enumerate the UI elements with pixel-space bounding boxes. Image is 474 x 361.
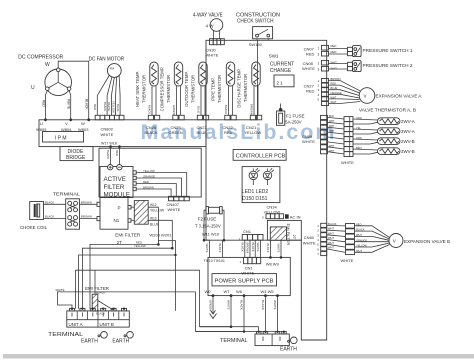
svg-text:F2 FUSE: F2 FUSE <box>198 216 217 221</box>
compressor wire U (red) <box>41 91 47 120</box>
svg-text:BROWN: BROWN <box>81 200 92 204</box>
svg-text:T 3.15A-250V: T 3.15A-250V <box>195 224 221 229</box>
EMI filter (small, line) <box>85 270 114 315</box>
svg-text:EMI FILTER: EMI FILTER <box>115 233 141 238</box>
wire run mid <box>76 270 259 331</box>
power supply bottom labels <box>205 289 275 294</box>
svg-text:BLUE: BLUE <box>116 104 120 111</box>
svg-text:WHITE: WHITE <box>302 139 315 144</box>
svg-text:ORANGE: ORANGE <box>356 238 368 242</box>
IPM PCB outline <box>39 120 206 147</box>
P N1 box <box>100 198 131 230</box>
svg-text:THERMISTOR: THERMISTOR <box>243 74 248 102</box>
wires W8 W9 to power supply <box>266 240 283 266</box>
choke coil <box>20 202 48 230</box>
svg-text:4 W: 4 W <box>206 24 215 29</box>
svg-text:WHT: WHT <box>329 130 335 133</box>
svg-text:WHITE: WHITE <box>101 132 114 137</box>
diode bridge <box>60 147 93 161</box>
svg-text:BLACK: BLACK <box>328 222 337 226</box>
svg-text:YELLOW: YELLOW <box>143 169 155 173</box>
svg-text:W11 W10: W11 W10 <box>202 231 220 236</box>
bottom gray band <box>3 354 474 359</box>
svg-text:BRIDGE: BRIDGE <box>66 155 86 161</box>
wire W5 white <box>273 296 277 332</box>
compressor temp thermistor <box>160 62 183 115</box>
svg-text:WHT: WHT <box>331 61 338 65</box>
junction dots U V W <box>44 118 47 121</box>
svg-text:5A-250V: 5A-250V <box>285 120 302 125</box>
DC compressor <box>18 54 71 95</box>
svg-text:BLACK: BLACK <box>145 130 158 135</box>
svg-text:BCK: BCK <box>329 115 334 118</box>
LED indicator box <box>242 167 280 203</box>
wire run third <box>79 254 177 309</box>
svg-text:BLACK: BLACK <box>218 244 222 253</box>
svg-text:YELLOW: YELLOW <box>134 244 146 248</box>
choke to terminal wires <box>44 200 66 218</box>
svg-text:W6: W6 <box>236 289 243 294</box>
svg-text:ORANGE: ORANGE <box>143 174 155 178</box>
svg-text:2T: 2T <box>292 235 297 240</box>
terminal to active filter wires <box>80 200 101 220</box>
wires to expansion valve A <box>329 77 361 104</box>
svg-text:WHITE: WHITE <box>303 240 316 245</box>
expansion valve A <box>359 88 422 104</box>
thermistor 3WV-A <box>353 128 415 135</box>
svg-text:W804: W804 <box>61 127 72 132</box>
wire WT white <box>200 296 232 327</box>
svg-text:3: 3 <box>318 53 320 57</box>
svg-text:EXPANSION VALVE A: EXPANSION VALVE A <box>376 93 423 98</box>
svg-text:AC IN: AC IN <box>290 214 301 219</box>
svg-text:WHT: WHT <box>356 233 362 237</box>
switch SW1 current change <box>269 53 295 86</box>
svg-text:3: 3 <box>318 68 320 72</box>
svg-text:BLUE: BLUE <box>197 106 201 113</box>
wires CN1 to power supply <box>241 240 261 257</box>
svg-text:BROWN: BROWN <box>143 185 154 189</box>
svg-text:W200 W201: W200 W201 <box>150 233 173 238</box>
svg-text:CHOKE COIL: CHOKE COIL <box>20 225 48 230</box>
connector CN27 <box>304 79 329 106</box>
svg-text:RED: RED <box>356 222 362 226</box>
svg-text:RED: RED <box>331 44 337 48</box>
svg-text:EMI FILTER: EMI FILTER <box>286 224 291 246</box>
svg-text:W12: W12 <box>150 203 157 207</box>
svg-text:WHT: WHT <box>328 231 334 235</box>
svg-text:BLACK: BLACK <box>96 312 105 316</box>
svg-text:WHT: WHT <box>328 241 334 245</box>
svg-text:YELLOW: YELLOW <box>150 209 165 213</box>
svg-text:BLACK: BLACK <box>251 243 255 252</box>
svg-text:BLACK: BLACK <box>240 300 244 310</box>
svg-text:COMPRESSOR TEMP.: COMPRESSOR TEMP. <box>160 67 165 112</box>
expansion valve B connector (external) <box>341 224 355 263</box>
valve thermistor connector (external) <box>341 116 362 165</box>
svg-text:F1 FUSE: F1 FUSE <box>286 114 305 119</box>
IPM terminal labels <box>36 121 89 132</box>
svg-text:V: V <box>65 121 68 126</box>
svg-text:T9/10 T9/101: T9/10 T9/101 <box>204 259 225 263</box>
wire W4 black <box>261 296 265 332</box>
svg-text:WHITE: WHITE <box>241 271 254 276</box>
svg-text:CN60: CN60 <box>304 235 315 240</box>
svg-text:P: P <box>118 205 121 210</box>
connector CN07 <box>304 44 337 57</box>
svg-text:FILTER: FILTER <box>104 184 125 191</box>
fuse F1 <box>277 104 305 126</box>
svg-text:1: 1 <box>318 62 320 66</box>
svg-text:RED: RED <box>115 150 119 156</box>
svg-text:W0: W0 <box>205 289 212 294</box>
svg-text:WHITE: WHITE <box>168 207 181 212</box>
IPM label <box>43 132 84 143</box>
svg-text:WHT: WHT <box>328 227 334 231</box>
svg-text:PIPE TEMP.: PIPE TEMP. <box>211 77 216 100</box>
wire W12 yellow <box>148 203 165 244</box>
discharge temp thermistor <box>237 62 261 115</box>
connector CN23 <box>197 115 209 135</box>
svg-text:WT: WT <box>224 289 231 294</box>
fuse F2 <box>195 207 222 229</box>
svg-text:VALVE THERMISTOR A, B: VALVE THERMISTOR A, B <box>359 108 416 113</box>
svg-text:CONTROLLER PCB: CONTROLLER PCB <box>236 153 286 159</box>
svg-text:THERMISTOR: THERMISTOR <box>217 75 222 103</box>
EMI filter (controller PCB) <box>267 220 301 245</box>
svg-text:SW1: SW1 <box>269 53 279 58</box>
svg-text:WHT: WHT <box>356 249 362 253</box>
svg-text:WHITE: WHITE <box>227 300 231 310</box>
svg-text:V: V <box>393 239 396 244</box>
svg-text:WHITE: WHITE <box>341 258 354 263</box>
wire yellow (W201 run) <box>82 244 173 309</box>
svg-text:BLACK: BLACK <box>356 228 365 232</box>
svg-text:THERMISTOR: THERMISTOR <box>191 75 196 103</box>
svg-text:SW160: SW160 <box>249 42 263 47</box>
svg-text:BLACK: BLACK <box>261 300 265 310</box>
svg-text:BLACK: BLACK <box>148 105 152 114</box>
controller PCB label <box>233 150 286 161</box>
svg-text:PRESSURE SWITCH 1: PRESSURE SWITCH 1 <box>363 48 413 53</box>
DC fan motor <box>89 57 125 78</box>
svg-text:THERMISTOR: THERMISTOR <box>166 75 171 103</box>
svg-text:GREEN: GREEN <box>209 300 213 311</box>
thermistor 2WV-A <box>353 118 415 125</box>
svg-text:YELLOW: YELLOW <box>356 244 367 248</box>
connector CN802 <box>95 115 124 137</box>
wires to expansion valve B <box>355 222 390 253</box>
svg-text:BLACK: BLACK <box>84 99 88 110</box>
svg-text:EARTH: EARTH <box>112 339 129 345</box>
svg-text:1: 1 <box>318 47 320 51</box>
svg-text:WHT: WHT <box>329 145 335 148</box>
svg-text:BROWN: BROWN <box>331 77 341 81</box>
svg-text:2WV-A: 2WV-A <box>401 119 415 124</box>
compressor wire W (black) <box>58 61 88 120</box>
svg-text:HEAT SINK TEMP.: HEAT SINK TEMP. <box>135 71 140 107</box>
svg-text:DIODE: DIODE <box>68 149 85 155</box>
earth terminal (unit A) <box>81 332 107 345</box>
heat sink temp thermistor <box>135 62 158 115</box>
connector CN1 (power supply) <box>240 257 261 275</box>
svg-text:WHITE: WHITE <box>205 244 209 253</box>
svg-text:BROWN: BROWN <box>250 104 254 115</box>
svg-text:I P M: I P M <box>55 135 67 141</box>
wires W11 W10 <box>202 210 225 263</box>
power supply PCB label <box>212 274 277 286</box>
svg-text:W805: W805 <box>36 127 47 132</box>
connector CN30 <box>206 39 225 58</box>
wire long vertical (W201 to unit B) <box>158 241 175 311</box>
svg-text:UNIT B: UNIT B <box>100 322 114 327</box>
svg-text:WHITE: WHITE <box>273 300 277 310</box>
svg-text:EARTH: EARTH <box>280 347 297 353</box>
svg-text:WHITE: WHITE <box>206 53 219 58</box>
svg-text:RED: RED <box>306 52 315 57</box>
svg-text:UNIT A: UNIT A <box>69 322 83 327</box>
svg-text:W13: W13 <box>150 216 157 220</box>
svg-text:YELLOW: YELLOW <box>111 101 115 113</box>
svg-text:FM: FM <box>110 67 115 71</box>
svg-text:THERMISTOR: THERMISTOR <box>142 75 147 103</box>
terminal (left) <box>53 192 81 230</box>
svg-text:RED: RED <box>331 82 337 86</box>
thermistor 2WV-B <box>353 138 415 145</box>
controller PCB outline <box>206 40 327 340</box>
svg-text:WHITE: WHITE <box>277 244 281 253</box>
wires to pressure switch 1 <box>329 48 348 50</box>
svg-text:BROWN: BROWN <box>246 243 250 254</box>
connector CN26 <box>145 115 160 135</box>
outdoor temp thermistor <box>184 62 207 115</box>
wire run low <box>56 288 284 334</box>
svg-text:N1: N1 <box>114 218 120 223</box>
svg-text:POWER SUPPLY PCB: POWER SUPPLY PCB <box>215 278 275 284</box>
svg-text:WHT: WHT <box>329 125 335 128</box>
svg-text:RED: RED <box>224 130 233 135</box>
wire W13 blue <box>148 216 172 248</box>
compressor wire V (white) <box>66 91 70 120</box>
svg-text:WHT: WHT <box>329 150 335 153</box>
svg-text:CHANGE: CHANGE <box>270 68 292 74</box>
svg-text:BLACK: BLACK <box>96 291 105 295</box>
svg-text:2WV-B: 2WV-B <box>401 139 415 144</box>
wires CN60 to external connector <box>327 222 346 252</box>
svg-text:RED: RED <box>306 89 315 94</box>
svg-text:BLACK: BLACK <box>224 105 228 114</box>
wires to pressure switch 2 <box>329 63 348 65</box>
svg-text:BLACK: BLACK <box>45 200 54 204</box>
power supply bottom junction dots <box>212 294 279 297</box>
svg-text:D150 D151: D150 D151 <box>242 196 268 202</box>
connector CN09 <box>302 115 328 153</box>
svg-text:WHITE: WHITE <box>302 66 315 71</box>
svg-text:RED: RED <box>41 100 45 107</box>
svg-text:BLACK: BLACK <box>266 244 270 253</box>
svg-text:PRESSURE SWITCH 2: PRESSURE SWITCH 2 <box>363 63 413 68</box>
svg-text:BLUE: BLUE <box>331 86 338 90</box>
pipe temp thermistor <box>211 62 235 115</box>
4-way valve <box>193 12 224 38</box>
svg-text:WHITE: WHITE <box>256 243 260 252</box>
earth terminal (right) <box>280 337 297 353</box>
svg-text:W: W <box>45 62 50 68</box>
svg-text:2 1: 2 1 <box>277 80 284 85</box>
EMI filter (line side) <box>115 201 148 245</box>
bottom terminal block <box>220 331 289 346</box>
svg-text:3WV-A: 3WV-A <box>401 129 415 134</box>
unit terminal block <box>48 308 129 339</box>
ground wire W0 green <box>209 296 214 314</box>
wire W6 black <box>195 296 244 332</box>
svg-text:U: U <box>31 85 35 91</box>
svg-text:ORANGE: ORANGE <box>331 91 343 95</box>
construction check switch SW160 <box>236 12 280 47</box>
power supply PCB outline <box>208 257 290 295</box>
svg-text:CHECK SWITCH: CHECK SWITCH <box>237 18 274 24</box>
connector CN34 <box>262 205 301 220</box>
connector CN407 <box>167 196 190 212</box>
svg-text:W: W <box>81 121 85 126</box>
svg-text:BLACK: BLACK <box>106 150 110 159</box>
thermistor 3WV-B <box>353 148 415 155</box>
connector CN21 <box>245 115 262 135</box>
svg-text:W8 W9: W8 W9 <box>266 261 280 266</box>
svg-text:TERMINAL: TERMINAL <box>53 192 81 197</box>
svg-text:CONSTRUCTION: CONSTRUCTION <box>236 12 280 18</box>
wires W17 W18 <box>101 142 121 165</box>
svg-text:LED1 LED2: LED1 LED2 <box>242 189 269 195</box>
svg-text:BLACK: BLACK <box>45 215 54 219</box>
connector CN60 <box>303 223 327 256</box>
svg-text:WHITE: WHITE <box>66 99 70 109</box>
svg-text:V: V <box>364 94 367 99</box>
svg-text:GREEN: GREEN <box>169 130 183 135</box>
svg-text:W4 W5: W4 W5 <box>261 289 275 294</box>
svg-text:BLUE: BLUE <box>150 223 160 227</box>
svg-text:YELLOW: YELLOW <box>245 130 262 135</box>
svg-text:DC COMPRESSOR: DC COMPRESSOR <box>18 54 63 60</box>
filter PCB outline <box>99 148 201 197</box>
svg-text:WHT: WHT <box>328 246 334 250</box>
wire red (W200 run) <box>90 240 160 308</box>
svg-text:WHT: WHT <box>331 95 337 99</box>
svg-text:GREEN: GREEN <box>172 105 176 115</box>
svg-text:RED: RED <box>93 104 97 110</box>
svg-text:3WV-B: 3WV-B <box>401 149 415 154</box>
wires CN09 to valve thermistor connector <box>328 115 345 154</box>
connector CN08 <box>302 60 337 71</box>
connector CN1 (controller) <box>239 229 264 241</box>
svg-text:WHITE: WHITE <box>56 288 65 292</box>
svg-text:4-WAY VALVE: 4-WAY VALVE <box>193 12 224 18</box>
svg-text:CN802: CN802 <box>101 127 114 132</box>
svg-text:DC FAN MOTOR: DC FAN MOTOR <box>89 57 125 63</box>
svg-text:WHT: WHT <box>329 120 335 123</box>
svg-text:BLACK: BLACK <box>241 243 245 252</box>
earth terminal (unit B) <box>112 332 133 345</box>
svg-text:EXPANSION VALVE B: EXPANSION VALVE B <box>404 239 450 244</box>
svg-text:WHT: WHT <box>328 236 334 240</box>
connector CN22 <box>223 115 237 135</box>
svg-text:W803: W803 <box>78 127 89 132</box>
fan motor wires <box>93 75 120 115</box>
expansion valve B <box>389 234 450 248</box>
pressure switch 2 <box>348 61 413 72</box>
svg-text:RED: RED <box>143 180 149 184</box>
svg-text:BLUE: BLUE <box>197 130 208 135</box>
svg-text:W17 W18: W17 W18 <box>101 142 117 146</box>
svg-text:EARTH: EARTH <box>81 339 98 345</box>
earth ground arrow <box>210 311 217 319</box>
connector CN25 <box>169 115 185 135</box>
active filter module <box>100 165 136 199</box>
svg-text:OUTDOOR TEMP.: OUTDOOR TEMP. <box>184 71 189 107</box>
pressure switch 1 <box>348 46 413 57</box>
controller PCB internal divider <box>256 40 258 120</box>
connector rail (thermistor connectors) <box>206 119 257 121</box>
svg-text:TERMINAL: TERMINAL <box>220 338 248 344</box>
svg-text:ACTIVE: ACTIVE <box>104 176 126 183</box>
svg-text:CURRENT: CURRENT <box>270 61 294 67</box>
svg-text:CN1: CN1 <box>243 229 252 234</box>
svg-text:RED: RED <box>331 50 337 54</box>
svg-text:DISCHARGE TEMP.: DISCHARGE TEMP. <box>237 68 242 107</box>
svg-text:U: U <box>40 121 43 126</box>
svg-text:WHT: WHT <box>331 100 337 104</box>
active filter to CN407 wires <box>136 169 187 197</box>
svg-text:WHITE: WHITE <box>341 160 354 165</box>
svg-text:TERMINAL: TERMINAL <box>48 332 83 338</box>
svg-text:BROWN: BROWN <box>81 215 92 219</box>
